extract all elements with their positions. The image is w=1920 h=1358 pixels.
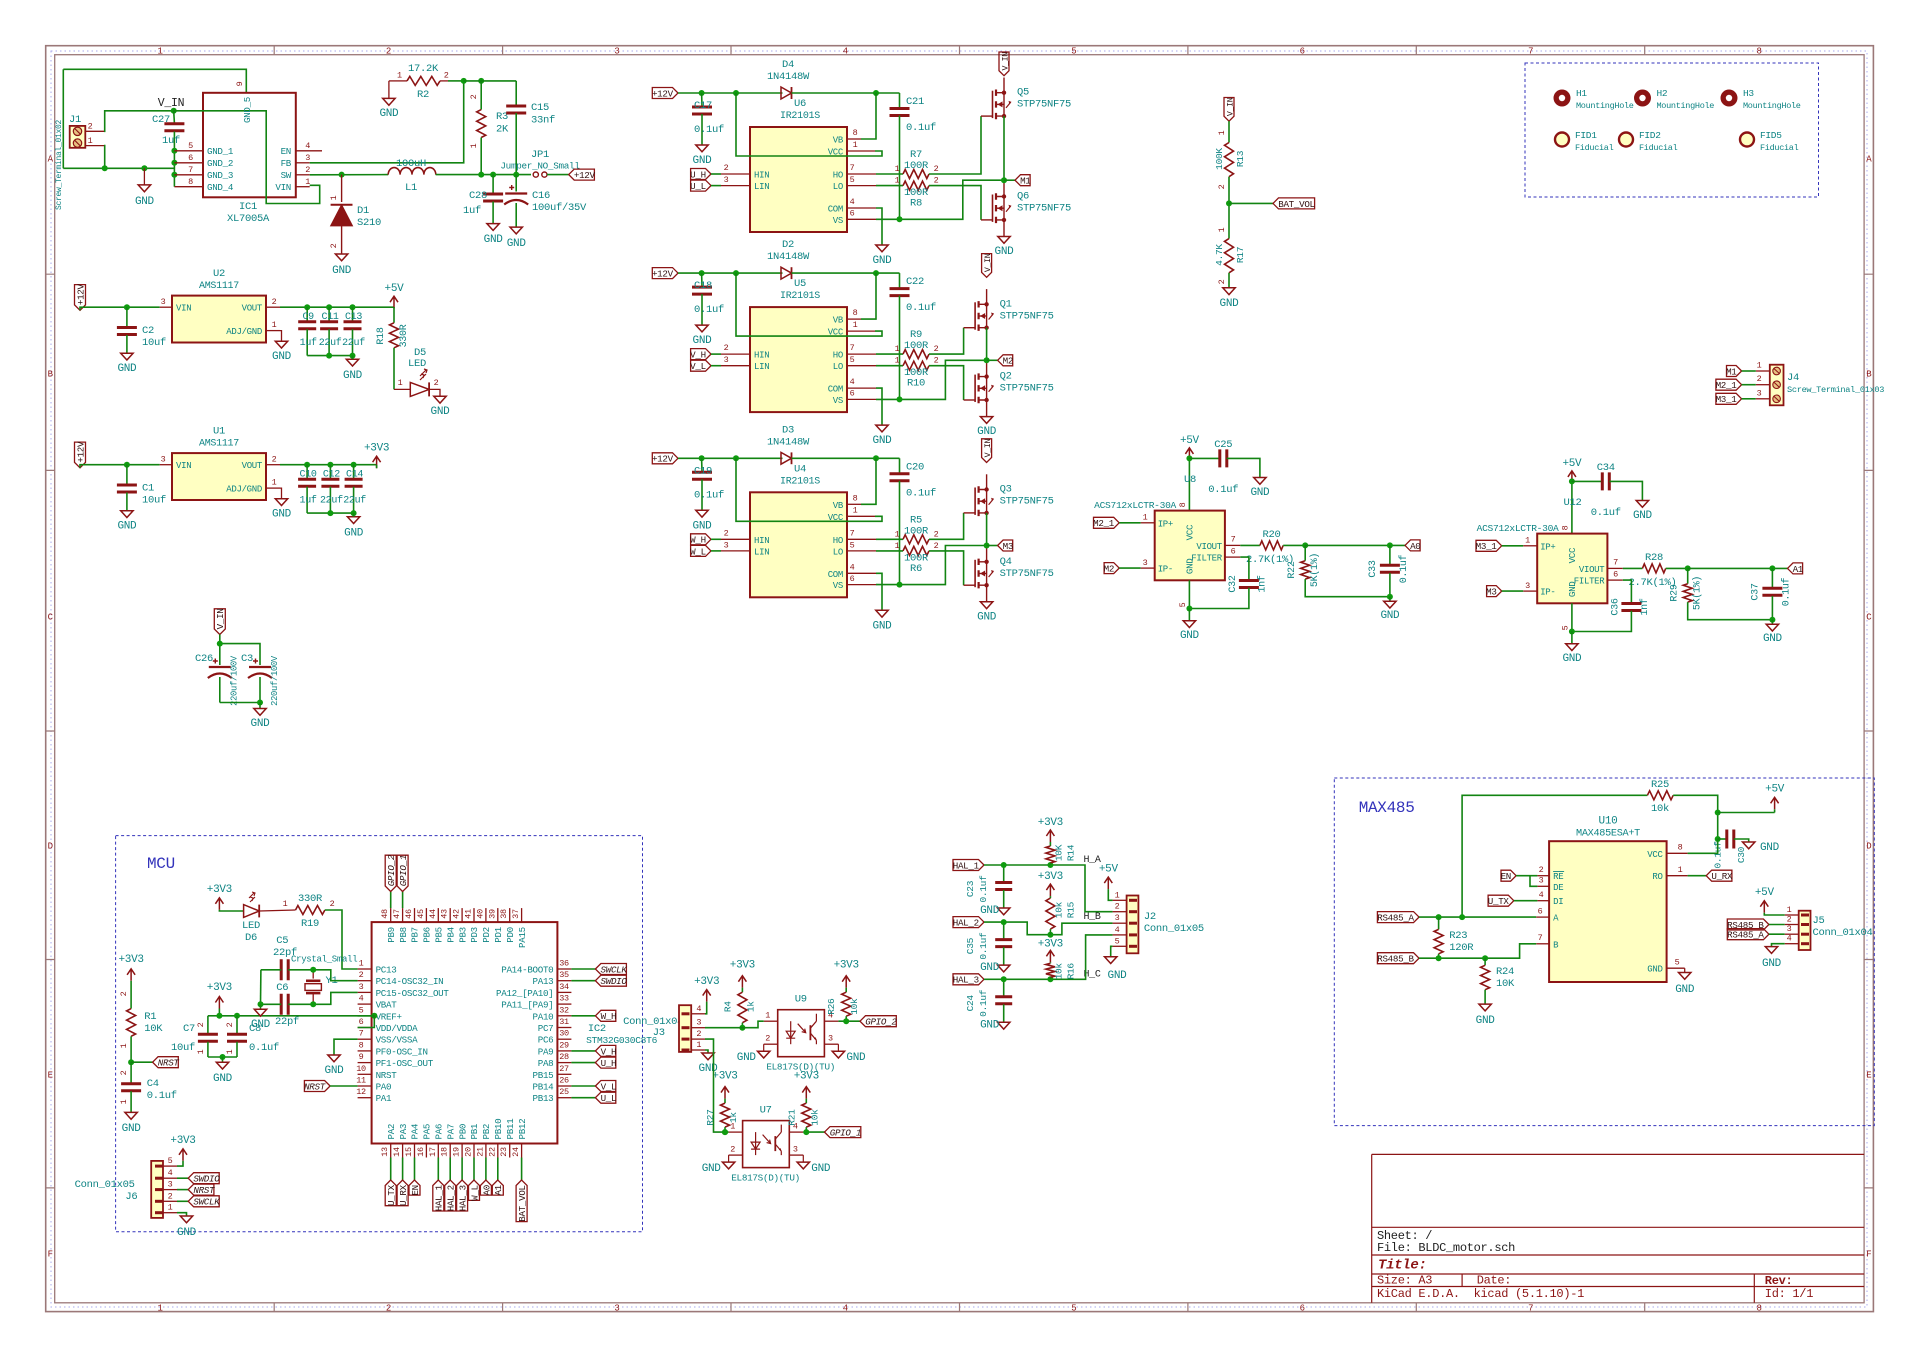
- svg-text:GND: GND: [1760, 842, 1780, 854]
- global label M3_1: [1476, 540, 1502, 551]
- svg-text:GND: GND: [702, 1163, 722, 1175]
- pin 4 COM: [847, 207, 876, 209]
- pin 8 PF0-OSC_IN of IC2: [358, 1050, 372, 1052]
- global label GPIO_1: [402, 892, 404, 909]
- svg-text:HAL_2: HAL_2: [446, 1185, 457, 1211]
- svg-text:1: 1: [157, 1304, 162, 1314]
- svg-text:VCC: VCC: [828, 328, 844, 338]
- pin 7 VIOUT: [1225, 544, 1240, 546]
- svg-text:C32: C32: [1228, 575, 1239, 592]
- global label SWCLK right: [571, 968, 595, 970]
- ground symbol U7 pin2: [728, 1155, 730, 1162]
- pin 22 PB10 of IC2: [497, 1144, 499, 1158]
- wire Q4 source to gnd: [986, 585, 988, 602]
- pin 7 HO: [847, 173, 876, 175]
- pin 1 of J3: [691, 1049, 705, 1051]
- svg-text:10k: 10k: [849, 998, 860, 1015]
- power +3V3 R1: [127, 969, 135, 981]
- svg-text:1N4148W: 1N4148W: [767, 436, 810, 448]
- wire caps gnd bus: [307, 512, 354, 514]
- capacitor C37 0.1uf: [1771, 568, 1773, 587]
- svg-text:ACS712xLCTR-30A: ACS712xLCTR-30A: [1477, 523, 1559, 534]
- ground symbol sensor: [1188, 609, 1190, 621]
- wire VIOUT to A label: [1305, 544, 1405, 546]
- svg-text:330R: 330R: [399, 324, 410, 347]
- svg-text:1: 1: [895, 356, 900, 366]
- svg-text:3: 3: [1757, 388, 1762, 398]
- global label HAL_3 bottom: [461, 1158, 463, 1181]
- svg-text:5K(1%): 5K(1%): [1692, 576, 1704, 610]
- wire Q1 source to M node: [986, 328, 988, 362]
- pin 5 GND_1 of IC1: [174, 150, 203, 152]
- fiducial FID5: [1740, 133, 1754, 147]
- svg-text:4: 4: [850, 377, 855, 387]
- wire C7 C8 gnd bus: [208, 1056, 237, 1058]
- svg-text:2: 2: [1757, 374, 1762, 384]
- svg-text:GND: GND: [117, 363, 137, 375]
- svg-text:U5: U5: [794, 278, 806, 290]
- ground symbol C18: [696, 325, 708, 332]
- pin 3 of U9: [824, 1043, 838, 1045]
- wire caps gnd bus: [307, 355, 352, 357]
- svg-text:1: 1: [1757, 361, 1762, 371]
- svg-text:BAT_VOL: BAT_VOL: [1278, 199, 1315, 210]
- svg-text:1: 1: [168, 1203, 173, 1213]
- svg-text:1N4148W: 1N4148W: [767, 71, 810, 83]
- svg-text:Q4: Q4: [1000, 556, 1012, 568]
- svg-text:C30: C30: [1736, 846, 1747, 863]
- svg-text:C15: C15: [531, 102, 549, 114]
- svg-text:8: 8: [853, 308, 858, 318]
- pin 35 PA13 of IC2: [557, 980, 571, 982]
- svg-text:U_L: U_L: [690, 181, 706, 192]
- svg-text:C37: C37: [1751, 583, 1762, 600]
- pin 8 VB: [847, 503, 861, 505]
- capacitor C9 1uf: [306, 307, 308, 321]
- svg-text:5: 5: [850, 175, 855, 185]
- pin 2 of J2: [1113, 911, 1127, 913]
- wire U7 output: [803, 1131, 824, 1133]
- svg-text:ADJ/GND: ADJ/GND: [226, 327, 262, 337]
- pin 3 DE of U10: [1537, 885, 1549, 887]
- svg-text:33nf: 33nf: [531, 115, 555, 127]
- ground symbol sensor: [1571, 632, 1573, 644]
- transistor Q1 STP75NF75: [986, 289, 988, 304]
- svg-text:C36: C36: [1611, 598, 1622, 615]
- svg-text:R10: R10: [907, 378, 925, 390]
- svg-text:C14: C14: [346, 470, 363, 481]
- svg-text:FID1: FID1: [1575, 130, 1597, 141]
- svg-text:VIN: VIN: [176, 304, 191, 314]
- svg-text:100R: 100R: [904, 525, 929, 537]
- svg-text:GND: GND: [995, 246, 1015, 258]
- pin 4 of J2: [1113, 934, 1127, 936]
- global label U_RX: [1688, 875, 1707, 877]
- svg-text:C6: C6: [276, 982, 288, 994]
- svg-text:23: 23: [499, 1147, 509, 1157]
- svg-text:FILTER: FILTER: [1574, 577, 1606, 587]
- svg-text:GND: GND: [1633, 510, 1653, 522]
- svg-text:MountingHole: MountingHole: [1743, 101, 1801, 111]
- pin 47 PB8 of IC2: [402, 908, 404, 922]
- svg-text:M3_1: M3_1: [1476, 541, 1498, 552]
- svg-text:LO: LO: [833, 547, 843, 557]
- svg-text:C17: C17: [694, 100, 712, 112]
- pin 2 of J5: [1785, 924, 1799, 926]
- svg-text:STP75NF75: STP75NF75: [1017, 203, 1071, 215]
- pin 19 PB0 of IC2: [461, 1144, 463, 1158]
- svg-text:3: 3: [1143, 558, 1148, 568]
- svg-text:FB: FB: [281, 158, 292, 169]
- svg-text:0.1uf: 0.1uf: [694, 304, 724, 316]
- svg-text:DI: DI: [1553, 897, 1563, 907]
- svg-text:8: 8: [1678, 843, 1683, 853]
- svg-text:1: 1: [1115, 890, 1120, 900]
- svg-text:Size: A3: Size: A3: [1377, 1274, 1432, 1288]
- svg-text:V_IN: V_IN: [984, 253, 993, 272]
- pin 1 of J4: [1756, 370, 1770, 372]
- pin 1 of J2: [1113, 899, 1127, 901]
- wire VOUT rail: [280, 464, 377, 466]
- global label V_IN bulk: [214, 609, 225, 635]
- pin 12 PA1 of IC2: [358, 1097, 372, 1099]
- pin 1 ADJ/GND: [266, 487, 280, 489]
- svg-text:3: 3: [161, 297, 166, 307]
- svg-text:KiCad E.D.A. kicad (5.1.10)-1: KiCad E.D.A. kicad (5.1.10)-1: [1377, 1287, 1584, 1301]
- svg-text:PA7: PA7: [445, 1124, 456, 1140]
- svg-text:+12V: +12V: [652, 454, 674, 465]
- pin 6 VS: [847, 584, 876, 586]
- svg-text:PA3: PA3: [398, 1124, 409, 1140]
- svg-text:Q3: Q3: [1000, 484, 1012, 496]
- svg-text:NRST: NRST: [304, 1081, 326, 1092]
- svg-text:GND_3: GND_3: [207, 170, 233, 181]
- wire A net: [1419, 916, 1536, 918]
- pin 10 NRST of IC2: [358, 1073, 372, 1075]
- svg-text:5: 5: [1675, 958, 1680, 968]
- svg-text:VCC: VCC: [1567, 547, 1578, 563]
- pin 3 IP-: [1523, 590, 1537, 592]
- pin 1 of U9: [764, 1020, 778, 1022]
- svg-text:2: 2: [168, 1191, 173, 1201]
- svg-text:3: 3: [359, 982, 364, 992]
- svg-text:1uf: 1uf: [300, 495, 317, 507]
- svg-text:2: 2: [119, 991, 129, 996]
- svg-text:STP75NF75: STP75NF75: [1000, 310, 1054, 322]
- capacitor C16 100uf/35V: [515, 175, 517, 192]
- svg-text:7: 7: [1528, 47, 1533, 57]
- ground symbol C24: [998, 1022, 1010, 1029]
- svg-text:PA15: PA15: [517, 927, 528, 948]
- svg-text:5: 5: [359, 1005, 364, 1015]
- svg-text:0.1uf: 0.1uf: [249, 1042, 279, 1054]
- local label V_IN Q1: [982, 254, 992, 278]
- svg-text:MountingHole: MountingHole: [1657, 101, 1715, 111]
- resistor R24 10K: [1484, 958, 1486, 965]
- svg-text:GND: GND: [251, 718, 271, 730]
- capacitor C34 0.1uf: [1572, 480, 1602, 482]
- svg-text:R25: R25: [1651, 779, 1669, 791]
- svg-text:Fiducial: Fiducial: [1575, 143, 1614, 153]
- ground symbol U7 pin3: [802, 1155, 804, 1162]
- resistor R18 330R: [393, 307, 395, 323]
- pin 1 of U7: [729, 1131, 743, 1133]
- global label GPIO_2: [860, 1016, 896, 1027]
- ground symbol C17: [696, 145, 708, 152]
- ground symbol filter: [1771, 620, 1773, 625]
- wire sensor gnd pin: [1188, 580, 1190, 608]
- pin 2 RE of U10: [1537, 875, 1549, 877]
- svg-text:HAL_3: HAL_3: [953, 975, 979, 986]
- svg-text:STP75NF75: STP75NF75: [1017, 99, 1071, 111]
- ground symbol C25: [1254, 478, 1266, 485]
- pin 38 PD0 of IC2: [509, 908, 511, 922]
- svg-text:5: 5: [188, 141, 193, 151]
- pin 3 VIN: [160, 464, 172, 466]
- svg-text:1: 1: [853, 320, 858, 330]
- svg-text:R1: R1: [144, 1011, 156, 1023]
- pin 45 PB6 of IC2: [425, 908, 427, 922]
- svg-text:J5: J5: [1813, 915, 1825, 927]
- svg-text:RS485_A: RS485_A: [1377, 913, 1414, 924]
- svg-text:VS: VS: [833, 396, 843, 406]
- resistor R10 100R: [876, 365, 903, 367]
- svg-text:GND: GND: [846, 1052, 866, 1064]
- pin 3 VIN: [160, 306, 172, 308]
- pin 4 EN of IC1: [296, 150, 322, 152]
- svg-text:PC14-OSC32_IN: PC14-OSC32_IN: [376, 976, 444, 987]
- svg-text:GND: GND: [431, 406, 451, 418]
- ground symbol COM: [876, 245, 888, 252]
- resistor R17 4.7K: [1225, 239, 1234, 273]
- local label V_IN Q5: [999, 52, 1009, 76]
- svg-text:V_IN: V_IN: [215, 608, 226, 629]
- svg-text:3: 3: [724, 355, 729, 365]
- svg-text:10uf: 10uf: [142, 495, 166, 507]
- svg-text:1: 1: [765, 1011, 770, 1021]
- svg-text:GND: GND: [980, 905, 1000, 917]
- svg-text:29: 29: [559, 1040, 569, 1050]
- svg-text:C20: C20: [906, 461, 924, 473]
- svg-text:EL817S(D)(TU): EL817S(D)(TU): [731, 1173, 800, 1184]
- pin 3 of J6: [163, 1189, 177, 1191]
- svg-text:W_H: W_H: [690, 535, 706, 546]
- svg-text:100R: 100R: [904, 340, 929, 352]
- svg-text:1: 1: [469, 143, 479, 148]
- IC U4 IR2101S: [750, 492, 847, 597]
- svg-text:1: 1: [283, 899, 288, 909]
- svg-text:GND: GND: [484, 234, 504, 246]
- svg-text:PB0: PB0: [457, 1124, 468, 1140]
- svg-text:V_IN: V_IN: [158, 97, 184, 110]
- svg-text:NRST: NRST: [158, 1058, 180, 1069]
- svg-text:47: 47: [392, 909, 402, 919]
- svg-text:A0: A0: [1410, 541, 1420, 552]
- junction filter gnd: [1769, 617, 1775, 623]
- IC U8 ACS712xLCTR-30A: [1155, 511, 1225, 581]
- global label GPIO_2: [390, 892, 392, 909]
- svg-text:A: A: [1866, 155, 1872, 165]
- wire VCC to +5V: [1688, 839, 1718, 853]
- svg-text:PF0-OSC_IN: PF0-OSC_IN: [376, 1046, 428, 1057]
- svg-text:0.1uf: 0.1uf: [906, 487, 936, 499]
- local label V_IN Q3: [982, 439, 992, 463]
- svg-text:6: 6: [188, 153, 193, 163]
- svg-text:2: 2: [934, 356, 939, 366]
- svg-text:R18: R18: [376, 327, 387, 344]
- pin 44 PB5 of IC2: [437, 908, 439, 922]
- local label V_IN divider: [1224, 98, 1234, 122]
- global label HAL_2 bottom: [449, 1158, 451, 1181]
- svg-text:45: 45: [416, 909, 426, 919]
- svg-text:4: 4: [168, 1168, 173, 1178]
- svg-text:0.1uf: 0.1uf: [694, 489, 724, 501]
- pin 1 of J5: [1785, 914, 1799, 916]
- pin 29 PA9 of IC2: [557, 1050, 571, 1052]
- svg-text:COM: COM: [828, 570, 843, 580]
- svg-text:PC13: PC13: [376, 965, 397, 976]
- global label U_L: [691, 180, 711, 191]
- pin 3 of J2: [1113, 922, 1127, 924]
- svg-text:GND: GND: [507, 238, 527, 250]
- svg-text:PC6: PC6: [538, 1035, 554, 1046]
- power +5V MAX485: [1718, 812, 1775, 814]
- svg-text:1: 1: [272, 320, 277, 330]
- svg-text:1: 1: [329, 195, 339, 200]
- svg-text:PA12_[PA10]: PA12_[PA10]: [496, 988, 553, 999]
- svg-text:+3V3: +3V3: [794, 1071, 819, 1083]
- pin 3 of J5: [1785, 933, 1799, 935]
- svg-text:GPIO_1: GPIO_1: [830, 1128, 861, 1139]
- resistor pullup R26 10k: [842, 976, 850, 988]
- svg-text:+5V: +5V: [1180, 435, 1200, 447]
- svg-text:1: 1: [895, 541, 900, 551]
- svg-text:STP75NF75: STP75NF75: [1000, 568, 1054, 580]
- capacitor C17 0.1uf: [701, 93, 703, 107]
- svg-text:6: 6: [850, 209, 855, 219]
- resistor R9 100R: [876, 353, 903, 355]
- svg-text:1: 1: [157, 47, 162, 57]
- svg-text:PA5: PA5: [422, 1124, 433, 1140]
- svg-text:1: 1: [397, 70, 402, 80]
- svg-text:MAX485ESA+T: MAX485ESA+T: [1576, 829, 1640, 840]
- pin 2 HIN: [721, 353, 750, 355]
- pin 28 PA8 of IC2: [557, 1062, 571, 1064]
- svg-text:32: 32: [559, 1005, 569, 1015]
- global label A0 bottom: [485, 1158, 487, 1181]
- svg-text:HAL_1: HAL_1: [953, 860, 980, 871]
- pin 1 RO of U10: [1667, 875, 1688, 877]
- svg-text:R26: R26: [826, 998, 837, 1015]
- svg-text:C4: C4: [147, 1078, 159, 1090]
- global label W_H: [691, 534, 711, 545]
- svg-text:U_L: U_L: [601, 1093, 617, 1104]
- svg-text:6: 6: [1300, 47, 1305, 57]
- pin 3 of J4: [1756, 398, 1770, 400]
- svg-text:2: 2: [934, 541, 939, 551]
- svg-text:3: 3: [1525, 581, 1530, 591]
- svg-text:PF1-OSC_OUT: PF1-OSC_OUT: [376, 1058, 434, 1069]
- svg-text:W_L: W_L: [690, 546, 706, 557]
- svg-text:Q5: Q5: [1017, 87, 1029, 99]
- svg-text:17: 17: [428, 1147, 438, 1157]
- capacitor C12 22uf: [329, 465, 331, 479]
- svg-text:1: 1: [305, 177, 310, 187]
- svg-text:NRST: NRST: [193, 1185, 215, 1196]
- svg-text:3: 3: [614, 47, 619, 57]
- pin 4 of J5: [1785, 943, 1799, 945]
- resistor R5 100R: [876, 538, 903, 540]
- global label A1 bottom: [497, 1158, 499, 1181]
- capacitor C21 0.1uf: [899, 93, 901, 108]
- svg-text:VIOUT: VIOUT: [1579, 565, 1605, 575]
- ground symbol ADJ: [280, 488, 282, 499]
- power +3V3 LED branch: [215, 898, 223, 910]
- svg-text:A0: A0: [481, 1185, 492, 1195]
- svg-text:+3V3: +3V3: [730, 960, 755, 972]
- svg-text:C9: C9: [302, 312, 314, 323]
- svg-text:2: 2: [272, 455, 277, 465]
- svg-text:+3V3: +3V3: [1038, 938, 1063, 950]
- svg-text:PA10: PA10: [533, 1011, 554, 1022]
- junction filter gnd: [1387, 594, 1393, 600]
- svg-text:U6: U6: [794, 98, 806, 110]
- svg-text:C12: C12: [323, 470, 340, 481]
- svg-text:+3V3: +3V3: [1038, 817, 1063, 829]
- svg-text:7: 7: [188, 165, 193, 175]
- wire HAL_1 row: [984, 865, 1113, 912]
- svg-text:40: 40: [475, 909, 485, 919]
- pin 1 ADJ/GND: [266, 330, 280, 332]
- svg-text:LED: LED: [408, 358, 426, 370]
- svg-text:PD3: PD3: [469, 927, 480, 943]
- global label M1 to J4: [1727, 366, 1742, 377]
- pin 1 VIN of IC1: [296, 186, 310, 188]
- svg-text:+3V3: +3V3: [207, 982, 232, 994]
- svg-text:11: 11: [356, 1076, 366, 1086]
- mounting holes group box: [1525, 63, 1819, 197]
- pin 7 VIOUT: [1607, 567, 1622, 569]
- capacitor C13 22uf: [352, 307, 354, 321]
- wire diode to VB node: [792, 457, 900, 459]
- svg-text:PC7: PC7: [538, 1023, 554, 1034]
- svg-text:C16: C16: [532, 190, 550, 202]
- resistor R6 100R: [876, 550, 903, 552]
- pin 6 A of U10: [1536, 916, 1549, 918]
- wire B net: [1419, 944, 1536, 958]
- svg-text:F: F: [1866, 1250, 1871, 1260]
- svg-text:J4: J4: [1787, 372, 1799, 384]
- svg-text:10k: 10k: [809, 1109, 820, 1126]
- pin 1 VCC: [847, 330, 875, 332]
- svg-text:MCU: MCU: [147, 855, 175, 873]
- wire J3 pin2 to U7: [705, 1039, 729, 1132]
- global label RS485_B: [1377, 953, 1419, 964]
- ground symbol GND bus: [143, 168, 145, 185]
- pin 34 PA12_[PA10] of IC2: [557, 991, 571, 993]
- ground symbol Q4: [980, 602, 992, 609]
- svg-text:2: 2: [724, 343, 729, 353]
- svg-text:2: 2: [196, 1022, 206, 1027]
- svg-text:2: 2: [934, 164, 939, 174]
- svg-text:B: B: [48, 370, 54, 380]
- svg-text:0.1uf: 0.1uf: [1591, 507, 1621, 519]
- global label EN bottom: [414, 1158, 416, 1181]
- pin 4 of J3: [691, 1013, 705, 1015]
- pin 2 of J4: [1756, 384, 1770, 386]
- ground symbol C34: [1636, 501, 1648, 508]
- frame row ticks: [46, 273, 1874, 275]
